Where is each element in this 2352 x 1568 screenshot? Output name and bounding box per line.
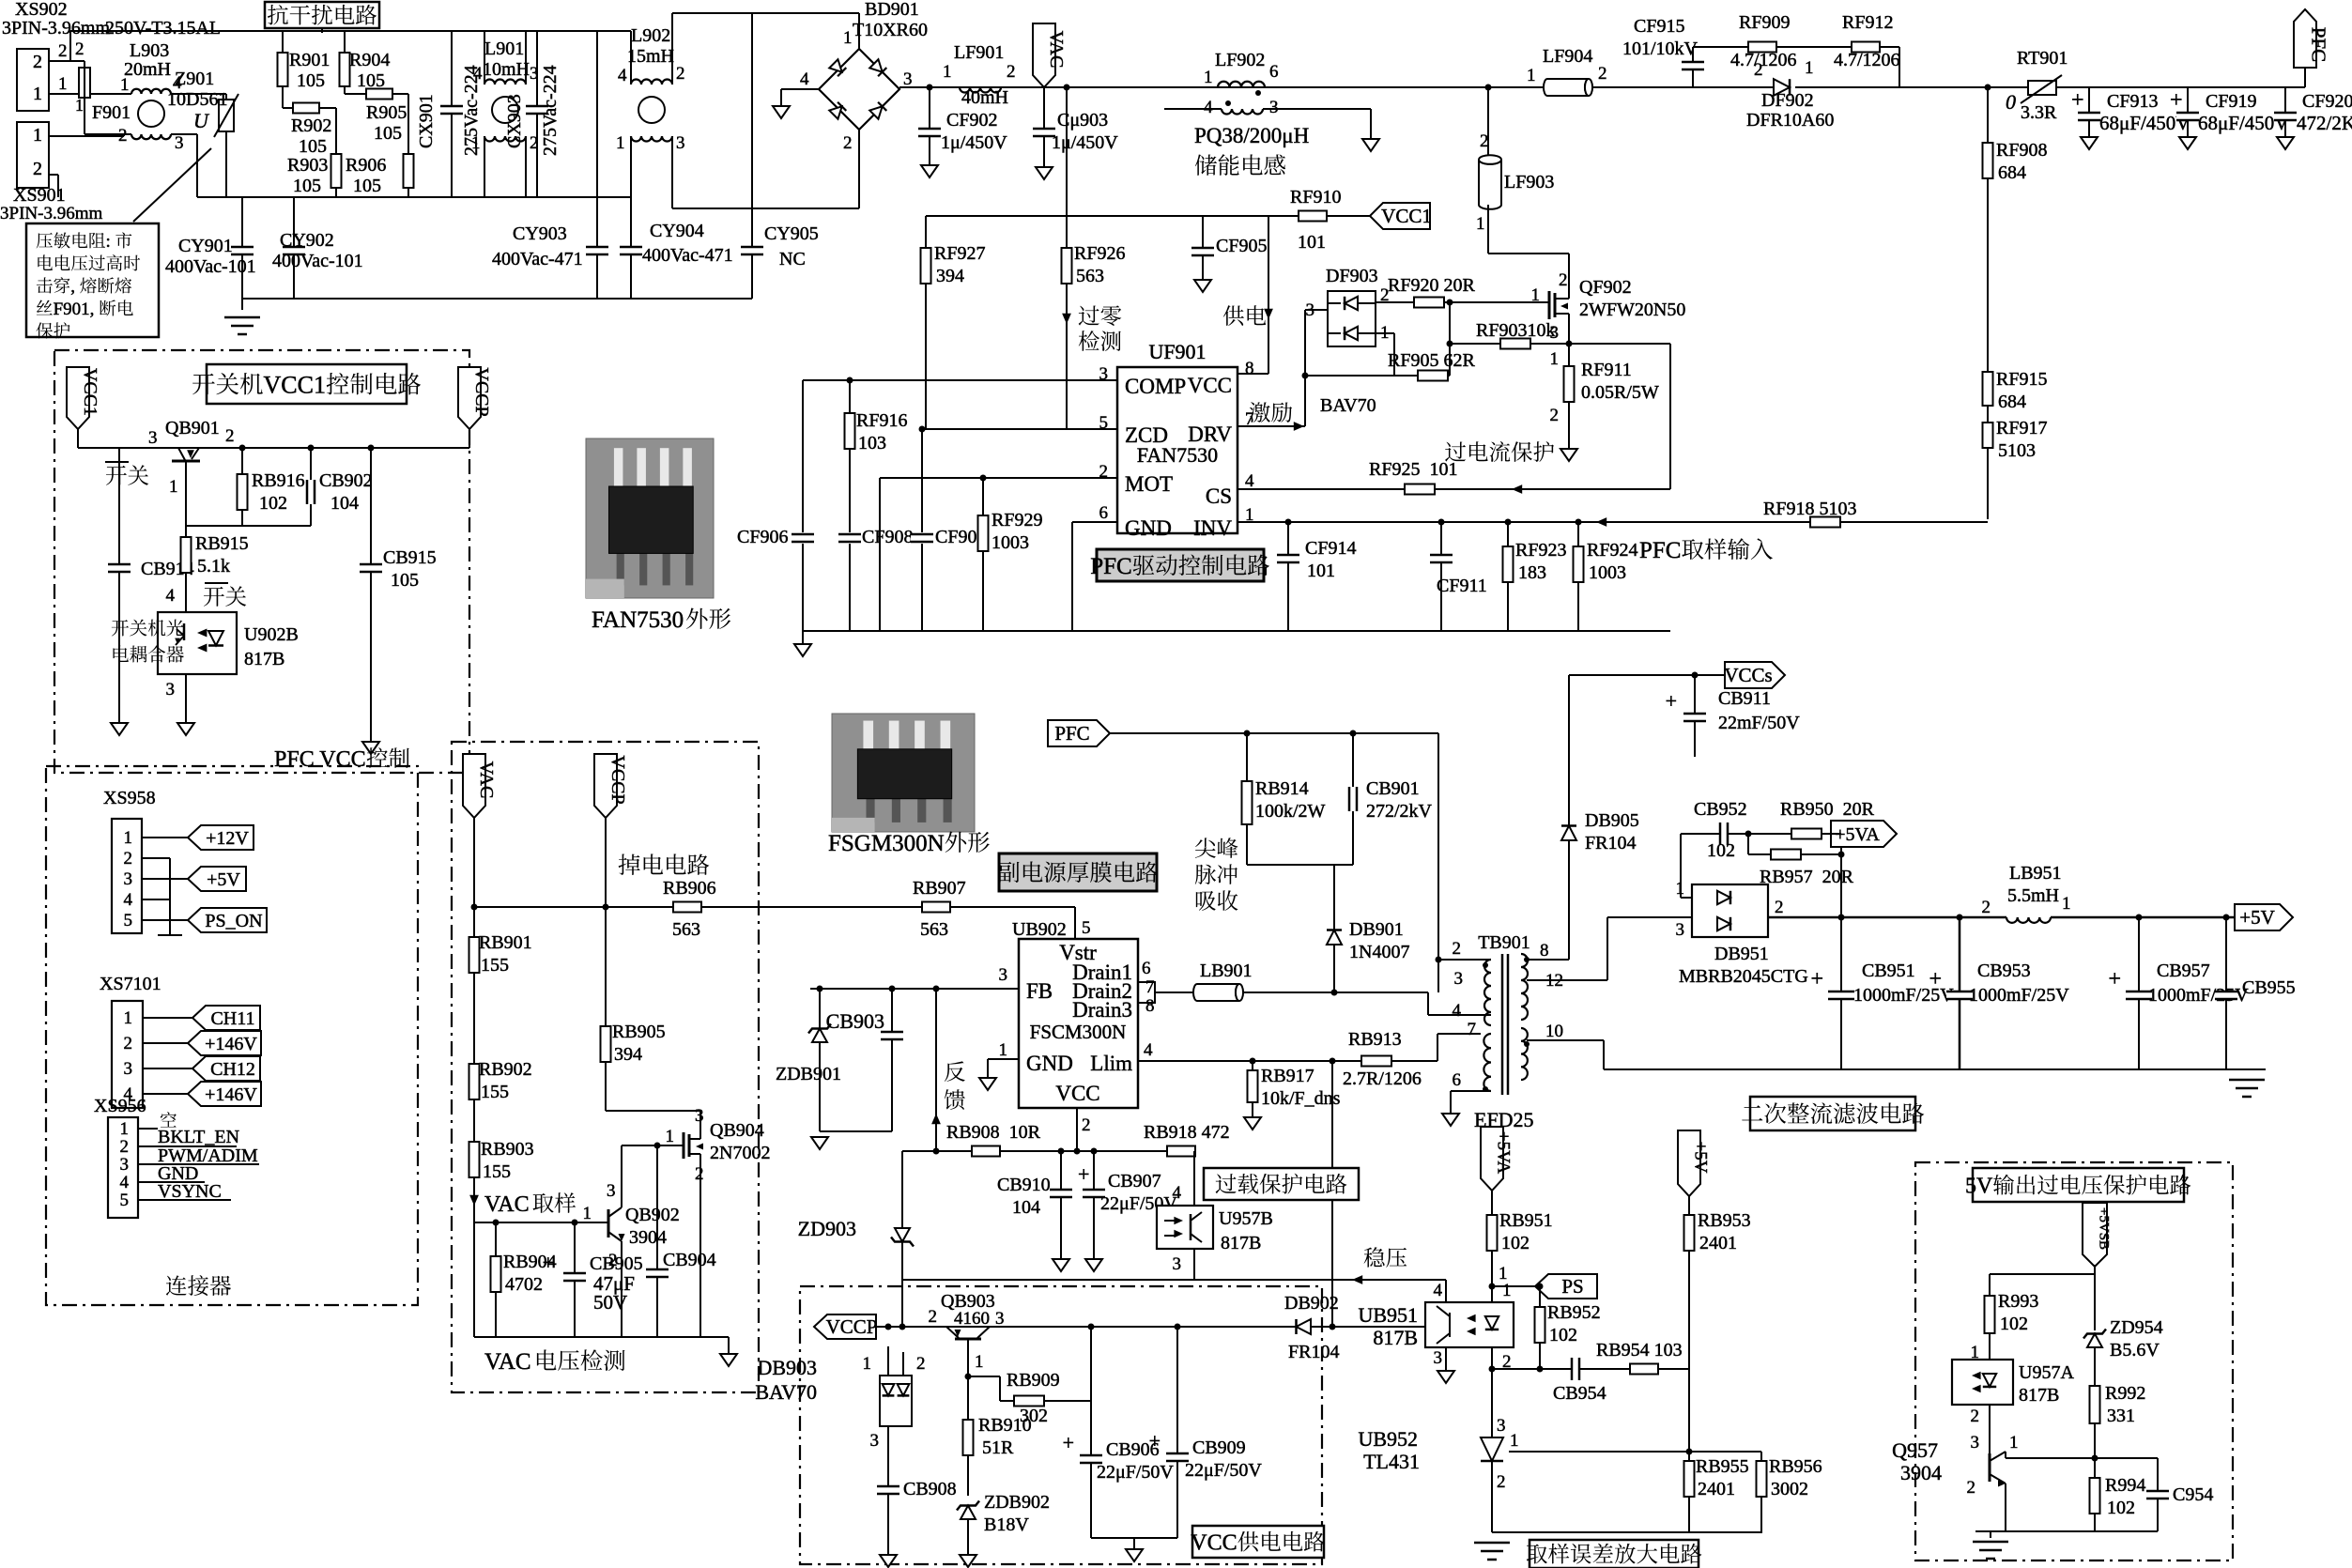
svg-text:ZD903: ZD903 xyxy=(798,1217,856,1240)
wire secondary ground rail xyxy=(1604,1068,2266,1070)
svg-text:1: 1 xyxy=(75,96,84,115)
svg-text:RB953: RB953 xyxy=(1698,1210,1751,1231)
svg-text:CB957: CB957 xyxy=(2157,961,2210,981)
svg-text:DB901: DB901 xyxy=(1349,919,1404,940)
svg-text:Z901: Z901 xyxy=(175,69,214,89)
resistor RF917 xyxy=(1987,423,1989,519)
ground Cμ903 xyxy=(1036,167,1053,179)
capacitor CF908 xyxy=(838,534,861,542)
svg-text:VAC: VAC xyxy=(484,1349,531,1375)
svg-text:1000mF/25V: 1000mF/25V xyxy=(1969,985,2069,1006)
flag +12V xyxy=(188,825,254,850)
svg-text:22μF/50V: 22μF/50V xyxy=(1185,1460,1262,1481)
svg-text:RB907: RB907 xyxy=(913,878,966,899)
svg-text:2: 2 xyxy=(58,41,68,61)
wire 稳压 row xyxy=(902,1279,1446,1281)
label 过载保护电路 xyxy=(1204,1168,1359,1200)
svg-text:+5VA: +5VA xyxy=(1835,824,1880,845)
capacitor CB957 electrolytic xyxy=(2138,917,2140,1069)
svg-text:+: + xyxy=(1666,689,1677,713)
svg-text:4: 4 xyxy=(473,64,483,84)
wire QB902 collector xyxy=(621,1145,623,1207)
svg-text:+: + xyxy=(1063,1431,1074,1454)
capacitor CX903 xyxy=(536,31,538,197)
svg-text:15mH: 15mH xyxy=(627,46,674,67)
svg-text:RB902: RB902 xyxy=(479,1059,532,1080)
capacitor Cμ903 xyxy=(1043,87,1045,167)
svg-text:5.5mH: 5.5mH xyxy=(2007,885,2059,906)
wire +5V out xyxy=(2051,916,2293,919)
svg-text:CH12: CH12 xyxy=(210,1059,255,1080)
svg-text:R902: R902 xyxy=(291,115,331,136)
resistor RF905 xyxy=(1305,375,1450,377)
svg-text:+: + xyxy=(1929,967,1942,992)
svg-text:RB917: RB917 xyxy=(1261,1066,1314,1086)
svg-text:U957B: U957B xyxy=(1219,1208,1273,1229)
svg-text:4: 4 xyxy=(1245,471,1254,491)
svg-text:1: 1 xyxy=(863,1354,872,1374)
svg-text:2: 2 xyxy=(1982,898,1991,917)
svg-text:105: 105 xyxy=(353,176,381,196)
svg-text:CB952: CB952 xyxy=(1694,799,1747,820)
svg-text:R994: R994 xyxy=(2105,1475,2145,1496)
svg-text:8: 8 xyxy=(1245,359,1254,378)
svg-text:2: 2 xyxy=(1453,939,1462,959)
svg-text:105: 105 xyxy=(299,136,327,157)
wire XS958 pin1 xyxy=(142,837,188,838)
svg-text:CX903: CX903 xyxy=(504,94,525,148)
annotation box 压敏电阻 xyxy=(133,148,211,222)
svg-text:RB913: RB913 xyxy=(1348,1029,1402,1050)
resistor RB918 xyxy=(1167,1146,1195,1157)
svg-text:1: 1 xyxy=(120,1119,130,1139)
resistor R992 xyxy=(2090,1386,2100,1423)
svg-text:VCCP: VCCP xyxy=(471,367,492,416)
svg-text:1: 1 xyxy=(1204,68,1213,87)
annotation overcurrent arrow xyxy=(1512,484,1522,494)
svg-text:VCC: VCC xyxy=(1191,1531,1237,1556)
svg-text:RF910: RF910 xyxy=(1290,187,1341,208)
svg-text:PFC: PFC xyxy=(1090,554,1131,579)
svg-text:CB903: CB903 xyxy=(826,1009,884,1033)
svg-text:GND: GND xyxy=(1026,1052,1073,1075)
wire TL431 ref row xyxy=(1509,1451,1761,1453)
wire main bus xyxy=(899,87,900,89)
resistor RF929 xyxy=(982,478,984,631)
svg-text:DB905: DB905 xyxy=(1585,810,1639,831)
ground CB906/909 xyxy=(1126,1549,1143,1561)
svg-text:CY905: CY905 xyxy=(764,223,819,244)
resistor R901 xyxy=(282,31,284,108)
svg-text:UB952: UB952 xyxy=(1358,1427,1418,1451)
svg-text:BKLT_EN: BKLT_EN xyxy=(158,1127,239,1147)
svg-text:2: 2 xyxy=(120,1137,130,1157)
svg-text:101/10kV: 101/10kV xyxy=(1622,38,1699,59)
svg-text:CB909: CB909 xyxy=(1192,1437,1246,1458)
svg-text:3PIN-3.96mm: 3PIN-3.96mm xyxy=(2,18,110,38)
svg-text:10k/F_dns: 10k/F_dns xyxy=(1261,1088,1341,1109)
svg-text:RF912: RF912 xyxy=(1842,12,1893,33)
annotation 供电 xyxy=(1223,305,1244,326)
wire L902 to bridge bottom xyxy=(672,208,859,209)
svg-text:CF906: CF906 xyxy=(737,527,788,547)
wire top AC rail xyxy=(70,30,631,32)
node LF903 tap xyxy=(1485,85,1492,91)
svg-text:B5.6V: B5.6V xyxy=(2110,1340,2160,1360)
svg-text:10: 10 xyxy=(1545,1022,1563,1041)
wire U957A to Q957 xyxy=(1989,1405,1991,1453)
svg-text:Cμ903: Cμ903 xyxy=(1057,110,1108,131)
svg-text:PQ38/200μH: PQ38/200μH xyxy=(1194,124,1309,147)
svg-text:101: 101 xyxy=(1307,561,1335,581)
svg-text:1: 1 xyxy=(583,1204,592,1223)
wire RF916/CF908 branch xyxy=(849,380,851,532)
svg-text:CF919: CF919 xyxy=(2206,91,2256,112)
wire QB902 emitter xyxy=(621,1241,623,1337)
svg-text:22μF/50V: 22μF/50V xyxy=(1097,1462,1174,1483)
svg-text:394: 394 xyxy=(614,1044,642,1065)
svg-text:1μ/450V: 1μ/450V xyxy=(941,132,1007,153)
ground opto xyxy=(177,723,194,735)
svg-text:4: 4 xyxy=(124,890,133,910)
svg-text:817B: 817B xyxy=(2019,1385,2059,1406)
wire VCC1 rail xyxy=(77,429,79,448)
svg-text:2WFW20N50: 2WFW20N50 xyxy=(1579,300,1685,320)
wire RB906/RB907 row xyxy=(474,906,1075,908)
svg-text:DF902: DF902 xyxy=(1761,90,1814,111)
svg-text:817B: 817B xyxy=(1221,1233,1261,1253)
svg-text:QF902: QF902 xyxy=(1579,277,1632,298)
svg-text:10D561: 10D561 xyxy=(167,89,227,110)
svg-text:TB901: TB901 xyxy=(1478,932,1530,953)
svg-text:RF90310k: RF90310k xyxy=(1476,320,1555,341)
svg-text:CB905: CB905 xyxy=(590,1253,643,1274)
photo FSGM300N xyxy=(832,714,975,832)
svg-text:275Vac-224: 275Vac-224 xyxy=(540,65,561,156)
svg-text:F901: F901 xyxy=(92,102,131,123)
svg-text:1: 1 xyxy=(33,84,42,104)
svg-text:RF915: RF915 xyxy=(1996,369,2047,390)
zener ZDB902 xyxy=(961,1506,976,1520)
svg-text:MOT: MOT xyxy=(1125,472,1173,496)
svg-text:INV: INV xyxy=(1193,516,1232,540)
capacitor CF915 xyxy=(1692,47,1694,87)
svg-text:2: 2 xyxy=(1082,1115,1091,1135)
svg-text:1: 1 xyxy=(124,1008,133,1028)
svg-text:3.3R: 3.3R xyxy=(2021,102,2057,123)
resistor RF903 xyxy=(1450,343,1569,345)
capacitor CY903 xyxy=(596,31,598,299)
svg-text:5: 5 xyxy=(124,911,133,930)
svg-text:472/2KV: 472/2KV xyxy=(2297,112,2352,134)
svg-text:817B: 817B xyxy=(1373,1326,1418,1349)
wire Q957 emitter ground xyxy=(2005,1483,2006,1531)
wire VAC box bottom rail xyxy=(474,1336,729,1338)
wire PFC ground rail xyxy=(803,630,1670,632)
svg-text:2: 2 xyxy=(1598,64,1607,84)
dual diode DB951 xyxy=(1692,884,1768,937)
net labels XS956 xyxy=(138,1128,158,1130)
svg-text:VCC: VCC xyxy=(1055,1082,1099,1105)
svg-text:101: 101 xyxy=(1298,232,1326,253)
inductor LB901 ferrite bead xyxy=(1193,984,1239,1001)
transistor Q957 xyxy=(1989,1453,1991,1482)
wire L902 to bridge top xyxy=(672,12,859,14)
flag PS xyxy=(1535,1274,1597,1299)
svg-text:RF917: RF917 xyxy=(1996,418,2047,438)
svg-text:684: 684 xyxy=(1998,392,2026,412)
section box 开关机VCC1控制电路 xyxy=(54,350,469,773)
svg-text:FB: FB xyxy=(1026,979,1053,1003)
svg-text:RF924: RF924 xyxy=(1587,540,1637,561)
svg-text:4: 4 xyxy=(166,586,176,606)
svg-text:1: 1 xyxy=(124,828,133,848)
svg-text:CF902: CF902 xyxy=(946,110,997,131)
svg-text:CB904: CB904 xyxy=(663,1250,716,1270)
capacitor CB951 electrolytic xyxy=(1840,917,1842,1069)
svg-text:1: 1 xyxy=(1527,66,1536,85)
svg-text:CB954: CB954 xyxy=(1553,1383,1606,1404)
svg-text:2: 2 xyxy=(1550,406,1560,425)
wire MOT net xyxy=(880,477,1117,479)
svg-text:394: 394 xyxy=(936,266,964,286)
svg-text:1: 1 xyxy=(169,477,178,497)
wire DRV pin7 激励 xyxy=(1237,425,1305,427)
wire TB901 pin10 return xyxy=(1527,1039,1604,1041)
svg-text:ZD954: ZD954 xyxy=(2110,1317,2163,1338)
resistor RF920 xyxy=(1414,298,1444,308)
svg-text:+: + xyxy=(1149,1429,1161,1453)
flag VCCP left box xyxy=(458,367,481,429)
wire +5V sampling chain xyxy=(1688,1196,1690,1452)
svg-text:5.1k: 5.1k xyxy=(197,556,230,576)
svg-text:UB951: UB951 xyxy=(1358,1303,1418,1327)
wire CB906/CB909 bottom xyxy=(1091,1537,1177,1539)
svg-text:400Vac-471: 400Vac-471 xyxy=(492,249,583,269)
flag +5VSB xyxy=(2083,1203,2107,1267)
svg-text:5103: 5103 xyxy=(1998,440,2036,461)
svg-text:3: 3 xyxy=(148,428,158,448)
svg-text:4: 4 xyxy=(1434,1281,1443,1300)
wire COMP net xyxy=(803,379,1117,381)
svg-text:CF911: CF911 xyxy=(1437,576,1487,596)
svg-text:U902B: U902B xyxy=(244,624,299,645)
svg-text:VCCs: VCCs xyxy=(1724,664,1772,686)
wire QB904 drain from RB905 xyxy=(605,1062,607,1111)
resistor RF923 xyxy=(1507,522,1509,631)
wire branch to R993 xyxy=(1990,1273,2095,1275)
svg-text:2: 2 xyxy=(843,133,853,153)
wire PFC net to snubber and TB901 xyxy=(1110,732,1438,734)
resistor R903 xyxy=(335,108,337,197)
svg-text:+: + xyxy=(543,1251,554,1274)
svg-text:3: 3 xyxy=(676,133,685,153)
capacitor CF919 electrolytic xyxy=(2187,87,2189,137)
flag CH12 xyxy=(192,1056,260,1081)
zener ZD903 xyxy=(901,1151,903,1327)
svg-text:ZDB901: ZDB901 xyxy=(776,1064,841,1084)
svg-text:R903: R903 xyxy=(287,155,328,176)
resistor RB956 xyxy=(1760,1452,1762,1532)
flag VAC xyxy=(1033,23,1055,87)
svg-text:+5V: +5V xyxy=(1691,1142,1711,1174)
svg-text:CY903: CY903 xyxy=(513,223,567,244)
svg-text:Llim: Llim xyxy=(1090,1052,1132,1075)
svg-text:RB957 20R: RB957 20R xyxy=(1760,867,1854,887)
svg-text:XS956: XS956 xyxy=(94,1096,146,1116)
wire DF903 pin1 to RF905 xyxy=(1376,332,1394,334)
svg-text:105: 105 xyxy=(374,123,402,144)
svg-text:CF914: CF914 xyxy=(1305,538,1356,559)
svg-text:QB902: QB902 xyxy=(625,1205,680,1225)
svg-text:2: 2 xyxy=(124,849,133,869)
capacitor CB909 electrolytic xyxy=(1176,1327,1178,1538)
flag VCCP in box xyxy=(594,754,617,818)
svg-text:1: 1 xyxy=(471,133,481,153)
capacitor CB901 xyxy=(1352,733,1354,865)
svg-text:3: 3 xyxy=(870,1431,880,1451)
resistor RB953 xyxy=(1684,1215,1695,1251)
annotation VAC取样 xyxy=(469,1195,479,1206)
capacitor CB955 xyxy=(2225,917,2227,1069)
capacitor CF920 xyxy=(2284,87,2286,137)
svg-text:1: 1 xyxy=(843,28,853,48)
svg-text:4: 4 xyxy=(1204,98,1213,117)
fuse F901 xyxy=(70,60,85,62)
svg-text:LB901: LB901 xyxy=(1200,961,1253,981)
svg-text:105: 105 xyxy=(297,70,325,91)
flag VCC1 left box xyxy=(67,367,89,429)
capacitor CB915 xyxy=(370,448,372,742)
svg-text:XS902: XS902 xyxy=(15,0,68,20)
svg-text:PFC: PFC xyxy=(1639,538,1681,563)
svg-text:105: 105 xyxy=(293,176,321,196)
svg-text:102: 102 xyxy=(1501,1233,1530,1253)
svg-text:L903: L903 xyxy=(130,40,169,61)
svg-text:1: 1 xyxy=(999,1040,1008,1060)
svg-text:R905: R905 xyxy=(366,102,407,123)
svg-text:R906: R906 xyxy=(346,155,386,176)
resistor RB905 xyxy=(601,1026,611,1062)
wire Llim net RB913 xyxy=(1138,1060,1437,1062)
svg-text:1: 1 xyxy=(120,75,130,95)
resistor RB913 xyxy=(1361,1056,1391,1067)
svg-text:684: 684 xyxy=(1998,162,2026,183)
svg-text:VCCP: VCCP xyxy=(826,1315,878,1338)
svg-text:20mH: 20mH xyxy=(124,59,171,80)
svg-text:RB909: RB909 xyxy=(1007,1370,1060,1391)
wire DB903 down to CB908 xyxy=(895,1426,897,1555)
wire DB951 out xyxy=(1768,916,2006,919)
ground arrow PFC rail xyxy=(794,644,811,656)
svg-text:FAN7530: FAN7530 xyxy=(592,607,684,633)
ground CB908 xyxy=(880,1555,897,1567)
resistor RF909 xyxy=(1748,42,1776,53)
svg-text:1: 1 xyxy=(1476,214,1485,234)
wire +5VA sampling chain xyxy=(1491,1191,1493,1302)
svg-text:FSGM300N: FSGM300N xyxy=(828,831,945,856)
resistor RF915 xyxy=(1983,372,1993,406)
flag +5V xyxy=(188,867,246,891)
svg-text:102: 102 xyxy=(2107,1498,2135,1518)
resistor RB908 xyxy=(972,1146,1000,1157)
svg-text:RF929: RF929 xyxy=(992,510,1042,530)
svg-text:VCC1: VCC1 xyxy=(1381,205,1432,227)
svg-text:3904: 3904 xyxy=(629,1227,667,1248)
wire TB901 pin8 to DB905 xyxy=(1527,959,1569,961)
svg-text:1: 1 xyxy=(2062,894,2071,914)
capacitor CB910 xyxy=(1060,1151,1062,1259)
svg-text:XS7101: XS7101 xyxy=(100,974,161,994)
svg-text:3: 3 xyxy=(695,1106,704,1126)
svg-text:1003: 1003 xyxy=(992,532,1029,553)
svg-text:3: 3 xyxy=(999,965,1008,985)
ground CB907 xyxy=(1085,1259,1102,1271)
resistor RF911 xyxy=(1568,344,1570,449)
svg-text:CB901: CB901 xyxy=(1366,778,1420,799)
svg-text:+5VA: +5VA xyxy=(1494,1131,1514,1174)
annotation 开关 upper xyxy=(106,466,127,485)
svg-text:DB903: DB903 xyxy=(757,1356,817,1379)
svg-text:LF901: LF901 xyxy=(954,42,1004,63)
ground CF902 xyxy=(921,165,938,177)
resistor RB915 xyxy=(185,526,187,612)
svg-text:+: + xyxy=(1078,1162,1089,1186)
ground RF911 过电流保护 xyxy=(1560,449,1577,461)
svg-text:RT901: RT901 xyxy=(2017,48,2068,69)
svg-text:2N7002: 2N7002 xyxy=(710,1143,770,1163)
svg-text:1: 1 xyxy=(1550,349,1560,369)
capacitor CF902 xyxy=(929,87,930,165)
svg-text:RB951: RB951 xyxy=(1499,1210,1553,1231)
svg-text:CB907: CB907 xyxy=(1108,1171,1161,1191)
earth protection xyxy=(1990,1531,1991,1538)
svg-text:2: 2 xyxy=(1754,60,1763,80)
capacitor CY905 xyxy=(751,13,753,299)
svg-text:8: 8 xyxy=(1540,941,1549,961)
svg-text:RB908 10R: RB908 10R xyxy=(946,1122,1041,1143)
capacitor CB904 xyxy=(656,1145,658,1337)
wire QB901 base node xyxy=(186,525,311,527)
svg-text:1: 1 xyxy=(616,133,625,153)
svg-text:RB916: RB916 xyxy=(252,470,305,491)
svg-text:6: 6 xyxy=(1142,959,1151,978)
flag +5V down xyxy=(1678,1130,1700,1196)
svg-text:CB902: CB902 xyxy=(319,470,373,491)
flag +146V lower xyxy=(188,1082,261,1106)
label 取样误差放大电路 xyxy=(1530,1540,1699,1568)
wire RF920 gate drive xyxy=(1376,301,1549,303)
label 二次整流滤波电路 xyxy=(1750,1097,1915,1130)
svg-text:2: 2 xyxy=(1971,1407,1980,1426)
flag VCCP bottom xyxy=(814,1314,876,1339)
wire opto to ground xyxy=(185,674,187,723)
capacitor CY904 xyxy=(630,136,632,299)
svg-text:2: 2 xyxy=(225,426,235,446)
ground CB915 xyxy=(362,742,379,754)
ground LF902 aux xyxy=(1362,139,1379,151)
node Q957 collector junction xyxy=(2006,1457,2095,1459)
wire TL431 to ground rail xyxy=(1491,1461,1493,1532)
svg-text:4.7/1206: 4.7/1206 xyxy=(1834,50,1900,70)
wire XS7101 pin1 xyxy=(143,1017,192,1019)
resistor RB903 xyxy=(469,1142,480,1177)
svg-text:2: 2 xyxy=(1559,270,1568,290)
svg-text:RF920 20R: RF920 20R xyxy=(1388,275,1475,296)
svg-text:1: 1 xyxy=(666,1127,675,1146)
svg-text:183: 183 xyxy=(1518,562,1546,583)
svg-text:102: 102 xyxy=(2000,1314,2028,1334)
